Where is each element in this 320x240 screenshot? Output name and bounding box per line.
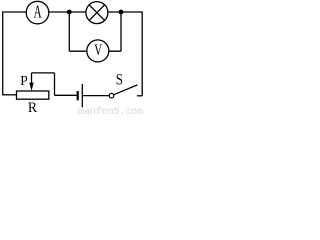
wire battery to switch [82, 95, 109, 97]
wire voltmeter branch horizontal [69, 50, 121, 52]
svg-text:V: V [94, 42, 102, 59]
wire wiper top horizontal [32, 72, 55, 74]
switch S pivot circle [109, 93, 114, 98]
wire top (left rail to right rail) [3, 11, 143, 13]
resistor wiper arrowhead [29, 83, 33, 91]
svg-text:manfen5.com: manfen5.com [78, 106, 143, 115]
battery positive long plate [81, 84, 83, 107]
wire left vertical rail [2, 11, 4, 94]
svg-text:A: A [34, 2, 42, 22]
ammeter A circle [26, 1, 49, 24]
resistor R rheostat box [17, 91, 49, 99]
wire voltmeter branch right vertical [120, 12, 122, 51]
node junction dot right [119, 10, 124, 15]
wire bottom to battery [55, 94, 77, 96]
wire bottom-left to rheostat [2, 94, 16, 96]
svg-text:S: S [116, 72, 123, 89]
wire right-rail foot (switch fixed contact) [137, 95, 142, 97]
node junction dot left [67, 10, 72, 15]
resistor wiper arrow stem [31, 73, 33, 85]
wire wiper right vertical [54, 73, 56, 95]
svg-text:P: P [20, 73, 28, 88]
lamp cross diagonal 1 [89, 5, 105, 21]
voltmeter V circle [87, 40, 109, 62]
svg-text:R: R [28, 100, 37, 115]
wire voltmeter branch left vertical [68, 12, 70, 51]
lamp cross diagonal 2 [89, 5, 105, 21]
wire right vertical rail [141, 11, 143, 95]
battery negative short plate [77, 91, 79, 100]
switch S lever [114, 85, 138, 95]
lamp L circle [86, 2, 108, 24]
